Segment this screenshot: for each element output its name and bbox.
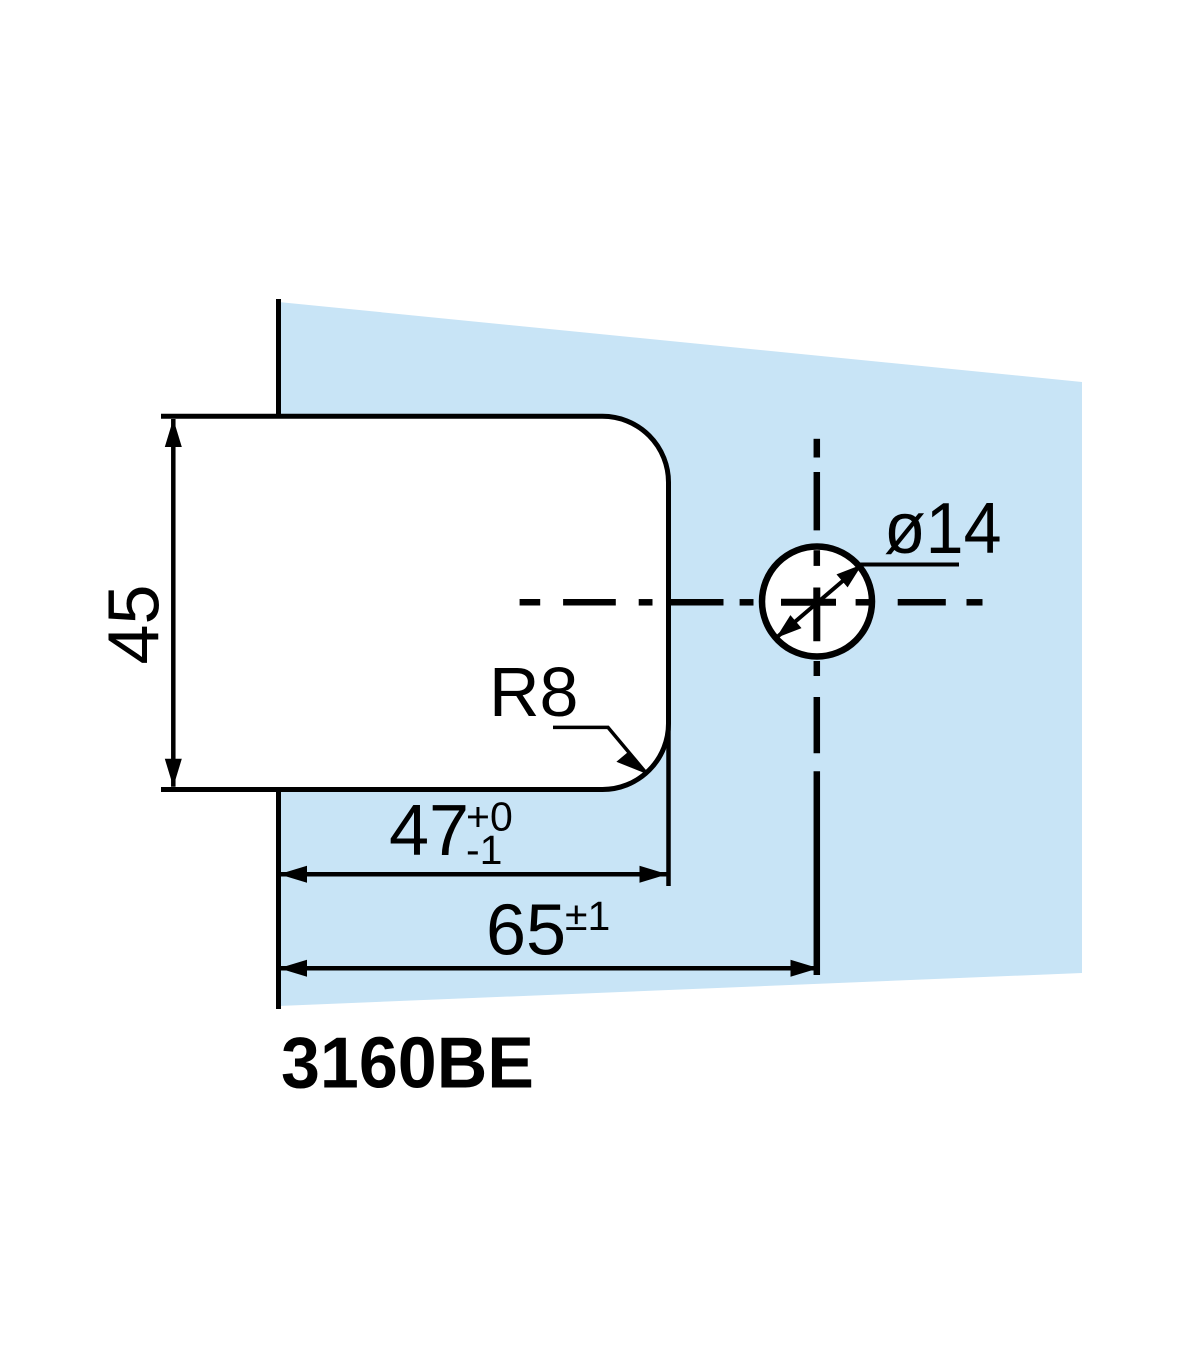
svg-text:47: 47 [389,791,469,871]
glass edge upper segment [276,299,281,416]
cutout (white notch) [240,416,669,789]
glass edge lower segment [276,790,281,1009]
svg-text:45: 45 [95,584,175,664]
hole circle [762,547,872,657]
diameter diagonal arrow [776,565,862,639]
svg-text:ø14: ø14 [884,489,1002,569]
dia leader line [858,563,959,567]
svg-text:R8: R8 [489,653,578,731]
svg-text:±1: ±1 [565,893,610,939]
horizontal centerline [520,599,983,606]
R8 leader [553,727,647,774]
dim 45 line [171,419,176,787]
extension line right of cutout [666,723,671,886]
dim 47 line [279,872,669,877]
cutout outline [161,416,669,789]
vertical centerline [814,439,821,975]
dim 65 line [279,966,819,971]
svg-text:65: 65 [486,891,566,971]
svg-text:-1: -1 [466,827,502,873]
svg-text:3160BE: 3160BE [281,1024,534,1104]
glass panel (blue) [279,302,1083,1006]
